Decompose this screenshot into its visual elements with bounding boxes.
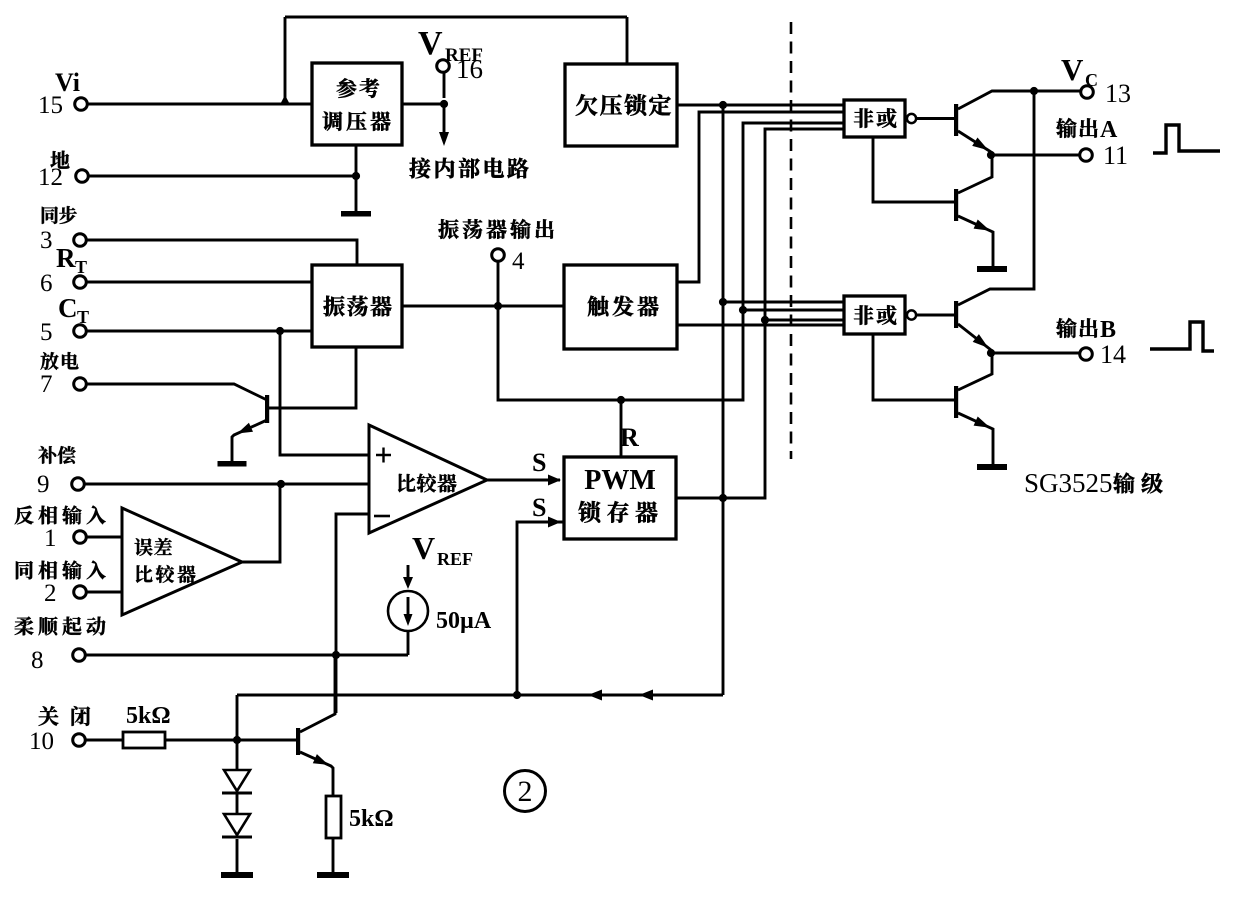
junction error amp output bbox=[277, 480, 285, 488]
terminal pin 3 bbox=[74, 234, 87, 247]
wire VREF node up to pin16 bbox=[443, 73, 446, 98]
wire pin3 sync to oscillator top bbox=[86, 240, 357, 265]
transistor Q1 discharge base bar bbox=[265, 395, 269, 423]
wire current source to pin8 line bbox=[407, 631, 410, 655]
box 振荡器 oscillator U3 bbox=[312, 265, 402, 347]
waveform pulse A bbox=[1153, 125, 1220, 153]
label 输出B bbox=[1056, 318, 1076, 338]
plus sign bbox=[376, 448, 391, 463]
svg-text:6: 6 bbox=[40, 270, 53, 297]
wire R1 to Q3 base bbox=[165, 739, 296, 742]
wire PWM latch output to NOR gates bbox=[676, 129, 844, 498]
wire regulator bottom to ground bbox=[355, 145, 358, 211]
wire pin1 to error amp bbox=[86, 536, 122, 539]
diode D2 bbox=[236, 794, 239, 814]
resistor-box 参考调压器 reference regulator U1 bbox=[312, 63, 402, 145]
junction at R drop bbox=[617, 396, 625, 404]
wire D2 to ground bbox=[236, 839, 239, 872]
svg-text:1: 1 bbox=[44, 525, 57, 552]
terminal pin 1 bbox=[74, 531, 87, 544]
wire NOR A to QA2 base bbox=[873, 137, 954, 202]
svg-text:T: T bbox=[75, 257, 87, 277]
wire top feedback rail bbox=[285, 16, 627, 19]
transistor QA1 base bar bbox=[954, 104, 958, 136]
junction soft-start node bbox=[332, 651, 340, 659]
wire Q3 emitter bbox=[300, 752, 333, 796]
wire pin6 RT to oscillator bbox=[86, 281, 312, 284]
junction UVLO rail top bbox=[719, 101, 727, 109]
label 补偿 compensation bbox=[38, 446, 56, 464]
transistor QB2 base bar bbox=[954, 386, 958, 418]
wire pin10 to R1 bbox=[85, 739, 123, 742]
waveform pulse B bbox=[1150, 322, 1214, 351]
arrow QB2 emitter bbox=[974, 417, 991, 428]
svg-text:SG3525: SG3525 bbox=[1024, 468, 1113, 498]
svg-text:2: 2 bbox=[518, 775, 533, 808]
arrow mark on rail 2 bbox=[639, 690, 653, 701]
ground below QB2 bbox=[977, 464, 1007, 470]
wire regulator output to VREF node bbox=[402, 103, 444, 106]
box 触发器 trigger flip-flop U4 bbox=[564, 265, 677, 349]
terminal pin 6 bbox=[74, 276, 87, 289]
wire pin15 to reference regulator bbox=[87, 103, 312, 106]
svg-text:15: 15 bbox=[38, 92, 63, 119]
wire QA2 emitter bbox=[958, 216, 993, 266]
wire pin5 CT to oscillator bbox=[86, 330, 312, 333]
terminal pin 16 VREF bbox=[437, 60, 450, 73]
wire oscillator bottom to Q1 base bbox=[269, 347, 356, 408]
ground below diodes bbox=[221, 872, 253, 878]
label 关闭 shutdown bbox=[39, 706, 59, 726]
current source I1 50uA circle bbox=[388, 591, 428, 631]
svg-text:5kΩ: 5kΩ bbox=[126, 703, 171, 729]
wire NOR B to QB2 base bbox=[873, 334, 954, 400]
svg-text:11: 11 bbox=[1103, 141, 1128, 170]
wire output B bbox=[991, 352, 1079, 355]
junction at regulator ground bbox=[352, 172, 360, 180]
ground below R2 bbox=[317, 872, 349, 878]
wire Q3 collector to soft-start bbox=[300, 656, 335, 732]
junction output A node bbox=[987, 151, 995, 159]
junction osc out bbox=[494, 302, 502, 310]
arrow inside current source bbox=[407, 597, 410, 617]
wire trigger Q to NOR A input2 bbox=[677, 112, 844, 282]
svg-text:V: V bbox=[418, 25, 443, 62]
diode D1 bbox=[236, 740, 239, 770]
wire pin2 to error amp bbox=[86, 591, 122, 594]
wire NOR B output to QB1 base bbox=[916, 314, 954, 317]
label 反相输入 inverting input bbox=[15, 506, 34, 525]
wire QB2 emitter bbox=[958, 413, 993, 464]
wire QA2 collector to output A bbox=[958, 156, 992, 193]
wire rail drop to pin15 line bbox=[284, 17, 287, 100]
arrow Q3 emitter bbox=[313, 754, 329, 765]
terminal pin 4 bbox=[492, 249, 505, 262]
wire NOR A output to QA1 base bbox=[916, 117, 954, 120]
wire NOR B input3 bbox=[765, 319, 844, 322]
wire osc output down-branch bbox=[498, 123, 844, 400]
svg-text:REF: REF bbox=[437, 549, 473, 569]
svg-text:16: 16 bbox=[456, 54, 483, 84]
gate 非或 NOR B U9 bbox=[844, 296, 905, 334]
svg-text:V: V bbox=[1061, 52, 1084, 87]
terminal pin 12 bbox=[76, 170, 89, 183]
svg-text:10: 10 bbox=[29, 728, 54, 755]
wire UVLO output to NOR A input1 bbox=[677, 104, 844, 107]
label 柔顺起动 soft start bbox=[14, 617, 33, 636]
junction output B node bbox=[987, 349, 995, 357]
wire comparator inverting input bbox=[336, 514, 369, 713]
terminal pin 8 bbox=[73, 649, 86, 662]
junction arrow at pin15 line bbox=[280, 95, 291, 106]
svg-text:8: 8 bbox=[31, 647, 44, 674]
wire VC rail down to QB1 collector bbox=[958, 91, 1034, 305]
arrowhead down internal bbox=[439, 132, 449, 146]
label 输出A bbox=[1056, 118, 1076, 138]
resistor R1 5k bbox=[123, 732, 165, 748]
wire Q1 emitter bbox=[232, 420, 267, 461]
svg-text:2: 2 bbox=[44, 580, 57, 607]
op-amp 比较器 PWM comparator U6 bbox=[369, 425, 487, 533]
wire error amp output up to compensation node bbox=[242, 484, 280, 562]
wire QB2 collector to output B bbox=[958, 354, 992, 390]
dashed boundary line bbox=[790, 22, 793, 459]
transistor QB1 base bar bbox=[954, 301, 958, 328]
figure number 2 circled bbox=[505, 771, 546, 812]
ground below Q1 bbox=[218, 461, 247, 467]
junction NORB in2 bbox=[739, 306, 747, 314]
wire output A bbox=[991, 154, 1079, 157]
wire oscillator output to trigger bbox=[402, 305, 564, 308]
transistor QA2 base bar bbox=[954, 189, 958, 221]
svg-text:9: 9 bbox=[37, 471, 50, 498]
terminal pin 2 bbox=[74, 586, 87, 599]
terminal pin 7 bbox=[74, 378, 87, 391]
svg-text:12: 12 bbox=[38, 164, 63, 191]
svg-text:S: S bbox=[532, 493, 546, 522]
wire pin12 to regulator ground bbox=[88, 175, 356, 178]
arrow QA1 emitter bbox=[972, 138, 988, 151]
svg-text:R: R bbox=[56, 243, 76, 273]
svg-text:S: S bbox=[532, 448, 546, 477]
minus sign bbox=[374, 515, 390, 518]
wire oscillator branch to NOR B input2 bbox=[743, 309, 844, 312]
svg-text:14: 14 bbox=[1100, 340, 1126, 369]
terminal pin 11 output A bbox=[1080, 149, 1093, 162]
label 同相输入 noninverting input bbox=[16, 561, 33, 579]
terminal pin 5 bbox=[74, 325, 87, 338]
arrow QA2 emitter bbox=[974, 220, 991, 231]
label 放电 discharge bbox=[40, 352, 58, 370]
arrow QB1 emitter bbox=[973, 334, 989, 348]
wire R2 to ground bbox=[332, 838, 335, 872]
svg-text:7: 7 bbox=[40, 371, 53, 398]
op-amp 误差比较器 error amplifier U7 bbox=[122, 508, 242, 615]
svg-text:13: 13 bbox=[1105, 79, 1131, 108]
wire shutdown rail bbox=[237, 694, 723, 697]
wire R input drop bbox=[620, 400, 623, 457]
wire NOR B input1 bbox=[723, 301, 844, 304]
box PWM锁存器 PWM latch U5 bbox=[564, 457, 676, 539]
wire rail drop to UVLO top bbox=[626, 17, 629, 64]
junction UVLO-PWM output bbox=[719, 494, 727, 502]
wire pin9 compensation line bbox=[84, 483, 369, 486]
terminal pin 14 output B bbox=[1080, 348, 1093, 361]
wire QB1 emitter bbox=[958, 324, 991, 350]
svg-text:PWM: PWM bbox=[584, 465, 656, 496]
wire VREF arrow to internal circuits bbox=[443, 104, 446, 134]
svg-text:3: 3 bbox=[40, 227, 53, 254]
junction base node A bbox=[233, 736, 241, 744]
svg-text:R: R bbox=[620, 423, 639, 452]
wire rail down to shutdown base node bbox=[236, 695, 239, 740]
svg-text:V: V bbox=[412, 530, 435, 566]
junction NORB in1 bbox=[719, 298, 727, 306]
arrow mark on rail 1 bbox=[588, 690, 602, 701]
junction VC node bbox=[1030, 87, 1038, 95]
arrow into S1 bbox=[548, 475, 561, 486]
label 地 ground pin12 bbox=[50, 151, 69, 169]
wire QA1 collector bbox=[958, 91, 1080, 109]
junction S2 drop bbox=[513, 691, 521, 699]
svg-text:5kΩ: 5kΩ bbox=[349, 806, 394, 832]
wire trigger Qbar to NOR B input4 bbox=[677, 324, 844, 327]
wire VREF to current source bbox=[407, 565, 410, 581]
box 欠压锁定 undervoltage lockout U2 bbox=[565, 64, 677, 146]
arrow into source bbox=[403, 577, 413, 589]
wire pin8 soft-start line bbox=[85, 654, 408, 657]
transistor Q3 shutdown base bar bbox=[296, 728, 300, 755]
svg-text:C: C bbox=[58, 293, 78, 323]
svg-text:A: A bbox=[1100, 117, 1118, 143]
wire CT down to comparator noninverting bbox=[280, 331, 369, 455]
wire UVLO vertical rail bbox=[722, 105, 725, 695]
wire S2 input from shutdown rail bbox=[517, 522, 564, 695]
gate 非或 NOR A U8 bbox=[844, 100, 905, 137]
svg-text:5: 5 bbox=[40, 319, 53, 346]
wire pin7 to discharge transistor collector bbox=[86, 384, 267, 400]
ground below QA2 bbox=[977, 266, 1007, 272]
junction CT node bbox=[276, 327, 284, 335]
label 振荡器输出 oscillator output bbox=[438, 219, 458, 239]
terminal pin 13 VC bbox=[1081, 86, 1094, 99]
terminal pin 15 bbox=[75, 98, 88, 111]
label 同步 sync bbox=[42, 206, 58, 223]
resistor R2 5k vertical bbox=[326, 796, 341, 838]
wire QA1 emitter bbox=[958, 131, 991, 152]
wire comparator output to S1 bbox=[487, 479, 560, 482]
terminal pin 9 bbox=[72, 478, 85, 491]
node VREF junction bbox=[440, 100, 448, 108]
svg-text:4: 4 bbox=[512, 248, 525, 275]
label 接内部电路 bbox=[409, 158, 430, 179]
terminal pin 10 bbox=[73, 734, 86, 747]
svg-text:50µA: 50µA bbox=[436, 608, 492, 634]
junction NORB in3 bbox=[761, 316, 769, 324]
arrow into S2 bbox=[548, 517, 561, 528]
wire pin4 stub bbox=[497, 261, 500, 306]
arrow Q1 emitter bbox=[237, 423, 253, 434]
ground symbol below regulator bbox=[341, 211, 371, 217]
